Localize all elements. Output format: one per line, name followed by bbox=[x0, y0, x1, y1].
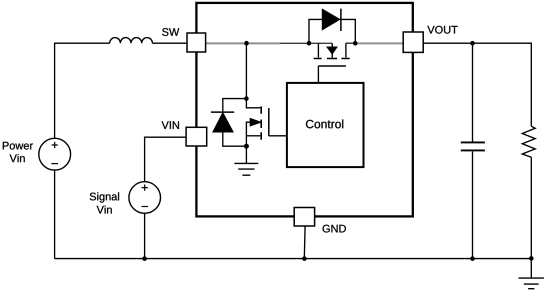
wire inductor to SW pin bbox=[152, 42, 187, 44]
junction dot SW node Q1 drain branch bbox=[244, 41, 249, 46]
wire Power Vin top to inductor bbox=[55, 43, 110, 138]
label GND bbox=[323, 225, 346, 233]
resistor R1 load bbox=[522, 126, 535, 258]
wire Signal Vin top to VIN pin bbox=[145, 137, 187, 182]
wire SW node to Q2 body diode bbox=[206, 43, 333, 47]
wire VOUT pin to load branch bbox=[423, 43, 531, 126]
junction dot VOUT node D2 cathode branch bbox=[353, 41, 358, 46]
wire ground rail bbox=[55, 258, 532, 260]
junction dot Q1 drain D1 cathode node bbox=[244, 96, 249, 101]
wire GND pin to ground rail bbox=[303, 226, 306, 259]
voltage source V2 Signal Vin bbox=[129, 182, 161, 214]
pin VOUT bbox=[403, 32, 423, 52]
junction dot Signal Vin ground rail bbox=[142, 256, 147, 261]
transistor Q2 sync switch bbox=[314, 43, 350, 83]
diode D2 rectifier bbox=[309, 9, 355, 44]
junction dot GND pin ground rail bbox=[302, 256, 307, 261]
pin VIN bbox=[186, 127, 207, 146]
label VIN bbox=[162, 121, 179, 129]
pin GND bbox=[294, 208, 314, 227]
label SW bbox=[162, 28, 179, 36]
pin SW bbox=[187, 33, 206, 52]
control block U2 bbox=[287, 83, 364, 167]
wire Q2 right terminal to VOUT pin bbox=[346, 42, 403, 44]
capacitor C1 output bbox=[461, 43, 485, 258]
junction dot VOUT node capacitor branch bbox=[470, 41, 475, 46]
transistor Q1 main switch bbox=[246, 99, 287, 147]
IC U1 outline bbox=[196, 3, 412, 217]
junction dot load ground rail bbox=[529, 256, 534, 261]
junction dot SW node D2 anode branch bbox=[307, 41, 312, 46]
ground output bbox=[519, 258, 544, 288]
inductor L1 bbox=[110, 38, 153, 44]
diode D1 internal bbox=[211, 99, 247, 147]
junction dot Q1 source D1 anode node bbox=[244, 144, 249, 149]
voltage source V1 Power Vin bbox=[39, 138, 71, 170]
ground internal bbox=[234, 146, 258, 175]
label Signal Vin bbox=[90, 192, 119, 213]
wire SW node down to Q1 drain bbox=[245, 43, 247, 98]
label Power Vin bbox=[3, 142, 33, 162]
label VOUT bbox=[427, 26, 457, 34]
wire Signal Vin bottom to ground rail bbox=[144, 213, 146, 258]
wire Power Vin bottom to ground rail bbox=[54, 170, 56, 259]
junction dot capacitor ground rail bbox=[470, 256, 475, 261]
